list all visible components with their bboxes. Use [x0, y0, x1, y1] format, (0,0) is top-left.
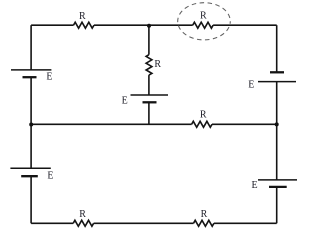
wire right rail lower	[276, 124, 278, 180]
svg-text:E: E	[248, 80, 254, 91]
wire left rail upper	[30, 25, 32, 70]
svg-text:R: R	[79, 11, 86, 22]
wire middle branch upper	[148, 25, 150, 55]
svg-text:E: E	[122, 96, 128, 107]
wire bottom-right horizontal	[214, 222, 277, 224]
node junction mid-right	[275, 122, 279, 126]
wire middle branch to battery	[148, 75, 150, 95]
resistor R2 circled zigzag	[193, 22, 213, 28]
battery E2 middle short plate	[143, 101, 157, 103]
wire bottom-left horizontal	[31, 222, 73, 224]
svg-text:E: E	[46, 72, 52, 83]
wire bottom-middle horizontal	[94, 222, 194, 224]
svg-text:E: E	[47, 171, 53, 182]
wire middle branch below battery	[148, 102, 150, 124]
svg-text:R: R	[200, 110, 207, 121]
resistor R5 bottom-left zigzag	[73, 220, 93, 226]
resistor R4 middle zigzag	[192, 121, 212, 127]
battery E5 right-bottom long plate	[258, 179, 297, 181]
svg-text:R: R	[200, 10, 207, 21]
wire top-left horizontal	[31, 24, 73, 26]
wire left rail bottom	[30, 176, 32, 223]
resistor R3 vertical zigzag	[146, 55, 152, 75]
dashed ellipse highlight around R2	[178, 3, 231, 40]
wire top-middle horizontal	[94, 24, 193, 26]
battery E1 left-top short plate	[23, 76, 37, 78]
wire middle horizontal left	[31, 123, 192, 125]
wire right rail mid	[276, 82, 278, 125]
wire middle horizontal right	[212, 123, 277, 125]
svg-text:E: E	[252, 180, 258, 191]
battery E4 left-bottom long plate	[10, 167, 50, 169]
resistor R1 top-left zigzag	[74, 22, 95, 28]
wire left rail mid	[30, 77, 32, 124]
node junction top-middle	[147, 24, 151, 28]
wire left rail lower	[30, 124, 32, 168]
wire top-right horizontal	[213, 24, 277, 26]
battery E3 right-top short plate	[270, 71, 284, 73]
battery E4 left-bottom short plate	[21, 175, 38, 177]
battery E2 middle long plate	[131, 94, 169, 96]
wire right rail upper	[276, 25, 278, 72]
node junction mid-left	[29, 123, 33, 127]
svg-text:R: R	[201, 209, 208, 220]
battery E3 right-top long plate	[258, 81, 296, 83]
resistor R6 bottom-right zigzag	[194, 220, 214, 226]
battery E1 left-top long plate	[11, 69, 51, 71]
svg-text:R: R	[154, 59, 161, 70]
svg-text:R: R	[79, 209, 86, 220]
battery E5 right-bottom short plate	[269, 186, 287, 188]
wire right rail bottom	[276, 187, 278, 223]
